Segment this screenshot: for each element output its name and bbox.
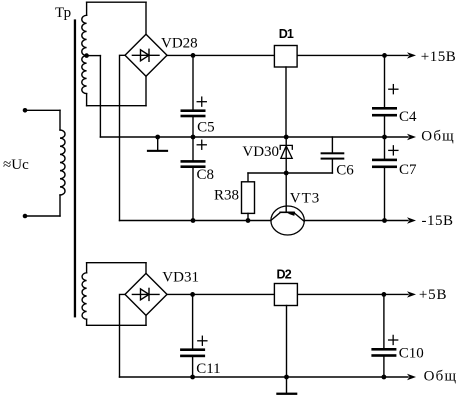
svg-text:C10: C10 <box>399 346 424 362</box>
svg-text:VD30: VD30 <box>242 144 279 160</box>
svg-text:D2: D2 <box>277 268 292 282</box>
svg-text:C11: C11 <box>196 361 220 377</box>
svg-text:+15В: +15В <box>421 49 456 65</box>
svg-text:D1: D1 <box>279 27 294 41</box>
svg-text:VD31: VD31 <box>162 270 199 286</box>
svg-text:C8: C8 <box>197 167 215 183</box>
svg-text:C5: C5 <box>197 120 215 136</box>
svg-text:-15В: -15В <box>422 213 454 229</box>
svg-text:R38: R38 <box>214 188 239 204</box>
svg-text:C7: C7 <box>399 162 417 178</box>
svg-text:C4: C4 <box>399 109 417 125</box>
svg-text:Общ: Общ <box>421 129 455 145</box>
svg-text:Тр: Тр <box>55 5 71 21</box>
svg-text:VD28: VD28 <box>161 35 198 51</box>
svg-text:≈Uc: ≈Uc <box>3 157 29 173</box>
svg-text:Общ: Общ <box>424 369 458 385</box>
svg-text:VT3: VT3 <box>290 191 321 207</box>
svg-text:C6: C6 <box>336 163 354 179</box>
svg-text:+5В: +5В <box>419 287 447 303</box>
